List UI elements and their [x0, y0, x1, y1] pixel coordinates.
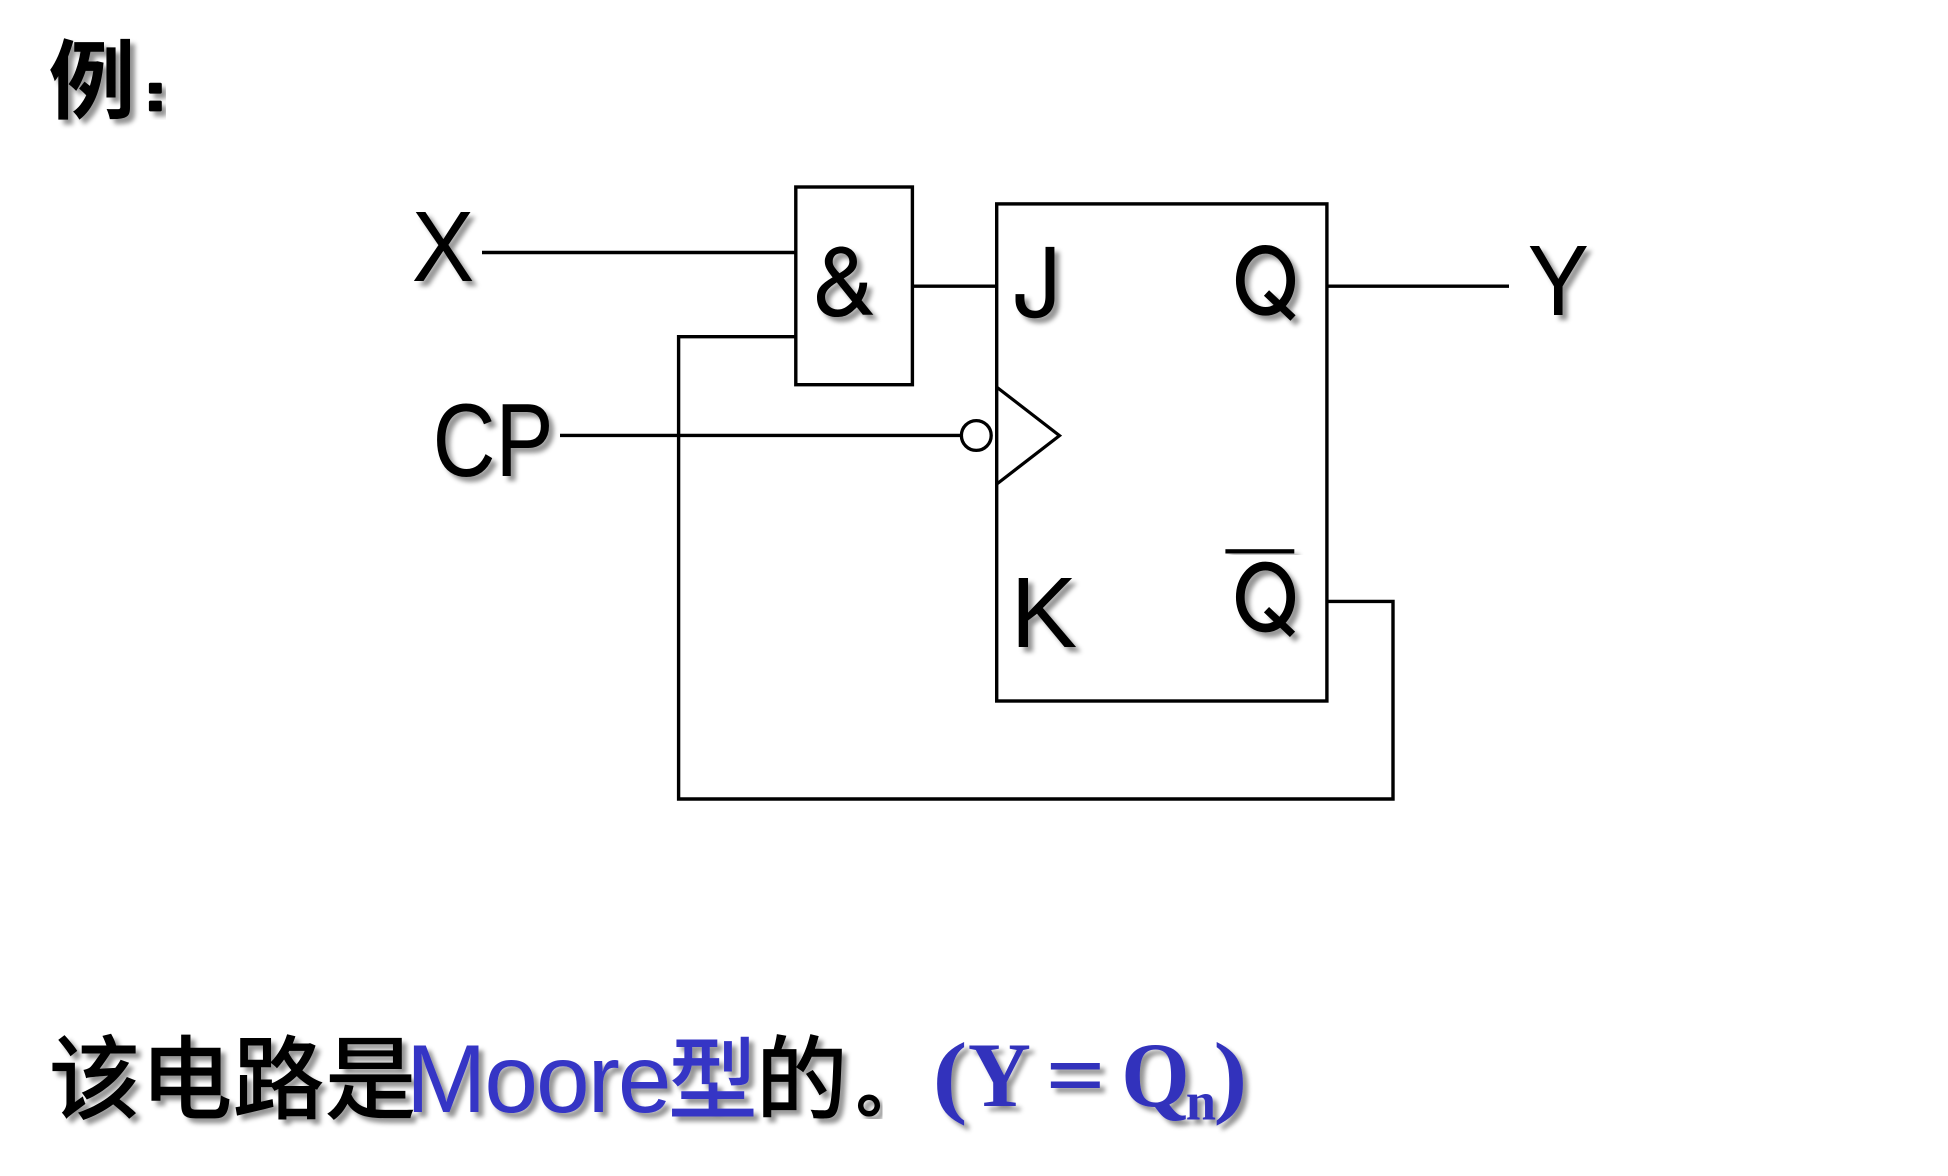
- bottom text 是: [327, 1038, 413, 1120]
- wire AND output to J input: [913, 285, 997, 288]
- bottom text 型 (blue): [672, 1037, 753, 1117]
- title fullwidth colon: [149, 83, 162, 112]
- pin label Q: [1240, 249, 1293, 318]
- svg-text:K: K: [1011, 557, 1078, 669]
- svg-text:X: X: [412, 191, 475, 303]
- Qbar overline: [1225, 549, 1294, 553]
- svg-text:CP: CP: [433, 383, 554, 499]
- bottom text 路: [236, 1034, 323, 1119]
- clock inversion bubble: [961, 421, 991, 451]
- pin label Qbar: [1240, 566, 1292, 634]
- svg-text:Y: Y: [1528, 225, 1589, 337]
- bottom text 电: [151, 1035, 229, 1119]
- wire CP input to clock bubble: [560, 434, 961, 437]
- JK flip-flop U2 box: [997, 204, 1327, 701]
- bottom text ideographic full stop: [861, 1097, 878, 1114]
- wire X input to AND gate: [482, 251, 795, 254]
- clock edge triangle: [997, 387, 1060, 484]
- feedback wire Qbar output around bottom to AND gate second input: [679, 337, 1393, 799]
- title text 例 (Example): [50, 38, 130, 119]
- pin label J: [1016, 247, 1055, 318]
- bottom text 的: [763, 1034, 842, 1118]
- bottom text 该: [52, 1034, 136, 1120]
- AND gate U1 box: [796, 187, 913, 385]
- AND gate symbol &: [817, 247, 873, 317]
- wire Q output to Y: [1327, 285, 1509, 288]
- svg-text:Moore: Moore: [406, 1026, 670, 1133]
